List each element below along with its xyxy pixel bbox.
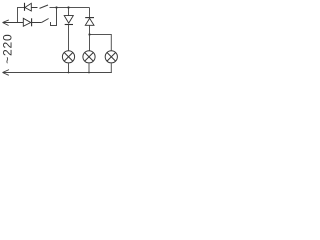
svg-text:~220: ~220 — [0, 34, 14, 64]
